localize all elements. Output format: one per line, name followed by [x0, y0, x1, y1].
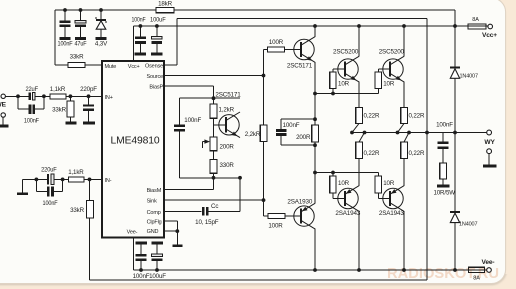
svg-text:2SC5200: 2SC5200 — [333, 48, 359, 55]
svg-text:Vcc+: Vcc+ — [482, 32, 497, 39]
svg-text:33kR: 33kR — [52, 107, 67, 114]
svg-text:100nF: 100nF — [184, 117, 201, 124]
svg-text:Source: Source — [146, 74, 163, 80]
svg-text:100uF: 100uF — [150, 17, 166, 24]
svg-text:10, 15pF: 10, 15pF — [195, 219, 219, 226]
svg-text:100nF: 100nF — [58, 41, 73, 48]
svg-text:1N4007: 1N4007 — [459, 222, 477, 228]
svg-text:100nF: 100nF — [133, 273, 150, 280]
svg-text:100uF: 100uF — [149, 273, 166, 280]
svg-text:0,22R: 0,22R — [364, 150, 380, 157]
svg-text:10R: 10R — [338, 180, 350, 187]
svg-text:220uF: 220uF — [41, 167, 57, 174]
svg-text:Comp: Comp — [147, 210, 161, 216]
svg-text:Sink: Sink — [147, 199, 157, 205]
svg-text:ClpFlg: ClpFlg — [147, 219, 162, 225]
svg-text:330R: 330R — [220, 162, 235, 169]
svg-text:Mute: Mute — [105, 64, 117, 70]
svg-text:2SC5171: 2SC5171 — [287, 63, 313, 70]
svg-text:Vee-: Vee- — [127, 230, 138, 236]
svg-text:47uF: 47uF — [75, 41, 87, 48]
svg-text:WE: WE — [0, 101, 7, 108]
svg-text:BiasM: BiasM — [147, 188, 162, 194]
svg-text:Vcc+: Vcc+ — [128, 64, 140, 70]
svg-text:BiasP: BiasP — [149, 85, 163, 91]
svg-text:8A: 8A — [472, 17, 479, 23]
svg-text:IN-: IN- — [105, 178, 112, 184]
svg-text:10R: 10R — [383, 81, 395, 88]
svg-text:2SC5200: 2SC5200 — [379, 48, 405, 55]
svg-text:33kR: 33kR — [70, 207, 85, 214]
svg-text:100nF: 100nF — [24, 118, 39, 125]
svg-text:100nF: 100nF — [132, 17, 146, 24]
svg-text:100nF: 100nF — [436, 122, 453, 129]
svg-text:0,22R: 0,22R — [364, 112, 380, 119]
svg-text:33kR: 33kR — [70, 54, 85, 61]
svg-text:1,1kR: 1,1kR — [50, 86, 66, 93]
svg-text:GND: GND — [147, 229, 159, 235]
svg-text:1,2kR: 1,2kR — [219, 107, 235, 114]
svg-text:2,2kR: 2,2kR — [245, 131, 261, 138]
svg-text:100R: 100R — [269, 39, 284, 46]
svg-text:Cc: Cc — [211, 203, 218, 210]
svg-text:18kR: 18kR — [158, 1, 173, 8]
svg-text:0,22R: 0,22R — [409, 112, 425, 119]
svg-text:LME49810: LME49810 — [111, 135, 160, 147]
svg-text:100nF: 100nF — [43, 200, 58, 207]
svg-text:200R: 200R — [296, 134, 311, 141]
svg-text:8A: 8A — [473, 275, 480, 281]
svg-text:2SA1930: 2SA1930 — [287, 198, 313, 205]
svg-text:IN+: IN+ — [105, 95, 113, 101]
svg-text:22uF: 22uF — [25, 86, 38, 93]
svg-text:Vee-: Vee- — [482, 259, 495, 266]
svg-text:2SA1943: 2SA1943 — [335, 210, 361, 217]
svg-text:100R: 100R — [268, 222, 283, 229]
svg-text:2SA1943: 2SA1943 — [379, 210, 405, 217]
svg-text:10R: 10R — [338, 81, 350, 88]
svg-text:1N4007: 1N4007 — [460, 74, 478, 80]
svg-text:10R: 10R — [383, 180, 395, 187]
svg-text:0,22R: 0,22R — [409, 150, 425, 157]
svg-text:220pF: 220pF — [80, 86, 97, 93]
svg-text:200R: 200R — [220, 144, 235, 151]
svg-text:100nF: 100nF — [283, 122, 300, 129]
svg-text:2SC5171: 2SC5171 — [215, 91, 241, 98]
svg-text:WY: WY — [484, 139, 495, 146]
svg-text:Osense: Osense — [145, 64, 163, 70]
svg-text:1,1kR: 1,1kR — [68, 169, 84, 176]
svg-text:4,3V: 4,3V — [95, 41, 108, 48]
svg-text:10R/5W: 10R/5W — [433, 189, 455, 196]
